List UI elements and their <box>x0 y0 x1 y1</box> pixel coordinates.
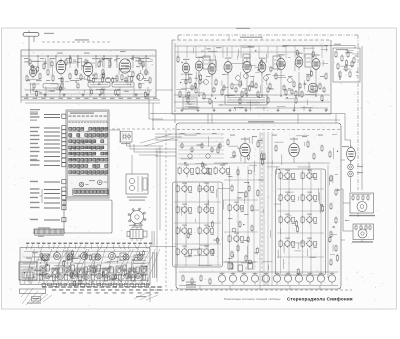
svg-text:Напечатано согласно типовой та: Напечатано согласно типовой таблицы <box>224 297 281 301</box>
svg-text:Стереорадиола Симфония: Стереорадиола Симфония <box>287 296 353 302</box>
